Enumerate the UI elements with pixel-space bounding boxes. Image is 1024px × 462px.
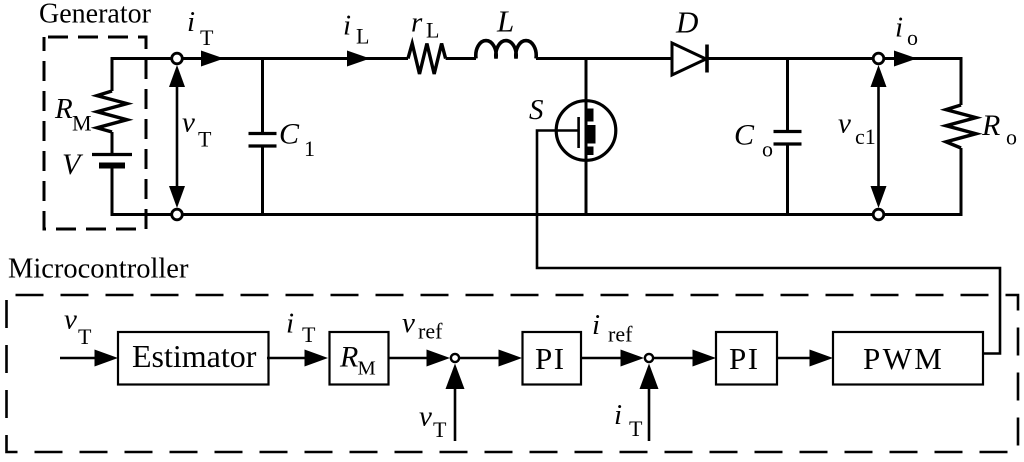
svg-text:R: R [54,93,73,125]
svg-text:1: 1 [304,136,315,161]
svg-text:Estimator: Estimator [132,338,257,374]
svg-text:L: L [496,4,514,39]
svg-text:v: v [838,108,851,140]
svg-text:T: T [629,416,643,441]
svg-text:T: T [78,324,92,349]
svg-text:i: i [187,6,195,38]
svg-text:o: o [1006,125,1017,150]
svg-text:V: V [62,148,84,181]
svg-text:L: L [356,24,369,49]
svg-text:M: M [358,358,376,380]
svg-text:c1: c1 [855,124,876,149]
svg-text:i: i [614,399,622,431]
svg-text:R: R [339,341,358,374]
svg-text:C: C [279,118,300,151]
svg-text:M: M [72,111,92,136]
svg-text:i: i [592,309,600,341]
svg-text:R: R [981,109,1000,142]
svg-text:v: v [64,304,77,336]
svg-text:i: i [286,308,294,340]
svg-text:PI: PI [535,341,566,376]
svg-text:Microcontroller: Microcontroller [8,254,189,285]
svg-text:i: i [895,12,903,44]
svg-text:v: v [419,401,432,433]
svg-text:i: i [343,10,351,42]
svg-text:L: L [426,18,439,43]
svg-text:Generator: Generator [39,0,152,30]
svg-text:D: D [675,5,698,40]
svg-text:v: v [182,107,195,139]
svg-text:r: r [411,7,423,39]
svg-text:ref: ref [418,319,443,344]
svg-text:C: C [734,119,755,152]
svg-text:T: T [200,25,214,50]
svg-text:o: o [762,137,773,162]
svg-text:T: T [302,322,316,347]
svg-text:PWM: PWM [863,341,944,376]
svg-text:S: S [529,94,544,126]
svg-text:T: T [433,417,447,442]
svg-text:ref: ref [608,322,633,347]
svg-text:PI: PI [729,341,760,376]
svg-text:T: T [198,127,212,152]
svg-text:v: v [402,307,415,339]
svg-text:o: o [907,25,918,50]
